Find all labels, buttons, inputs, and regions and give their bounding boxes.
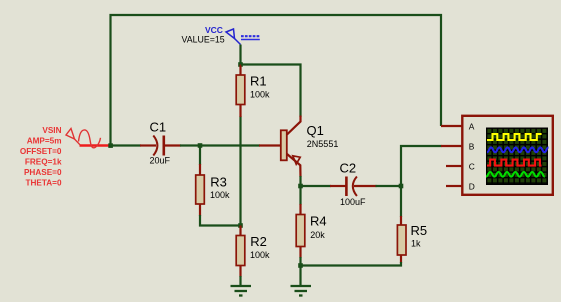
wire: R1 bottom through to divider node (crosses base wire)	[239, 116, 241, 226]
svg-text:100k: 100k	[250, 90, 270, 100]
wire: R5 bottom to emitter ground rail	[301, 262, 402, 266]
svg-text:C: C	[469, 161, 475, 171]
resistor R5	[397, 216, 406, 263]
scope trace channel D (green sine)	[486, 172, 545, 177]
svg-text:20uF: 20uF	[150, 156, 171, 166]
svg-text:20k: 20k	[310, 230, 325, 240]
svg-text:VCC: VCC	[205, 25, 223, 35]
scope trace channel C (red square wave)	[487, 160, 542, 166]
scope screen with grid	[486, 128, 548, 186]
svg-text:PHASE=0: PHASE=0	[24, 168, 62, 177]
base pin	[259, 144, 280, 146]
svg-text:100k: 100k	[250, 250, 270, 260]
node: emitter junction	[298, 184, 303, 189]
wire: input loop from VSIN node to scope channel A	[111, 15, 442, 146]
svg-text:AMP=5m: AMP=5m	[27, 137, 62, 146]
svg-text:R4: R4	[310, 214, 327, 229]
node: input junction	[108, 143, 113, 148]
resistor R4	[296, 186, 305, 266]
scope pin A	[441, 125, 462, 127]
resistor R2	[236, 226, 245, 278]
svg-text:THETA=0: THETA=0	[25, 179, 61, 188]
emitter lead with arrow	[287, 154, 301, 177]
oscilloscope U1 body	[462, 116, 553, 195]
svg-text:FREQ=1k: FREQ=1k	[25, 158, 62, 167]
ground (under R2)	[231, 286, 252, 296]
svg-text:1k: 1k	[411, 239, 421, 249]
svg-text:R1: R1	[250, 73, 267, 88]
wire: output node down to R5	[400, 186, 402, 217]
base bar	[281, 130, 287, 160]
wire: VCC node to collector	[241, 65, 301, 118]
capacitor C2	[330, 177, 377, 197]
svg-text:A: A	[469, 121, 475, 131]
wire: junction down to R3	[199, 146, 201, 166]
svg-text:OFFSET=0: OFFSET=0	[20, 147, 62, 156]
svg-text:Q1: Q1	[307, 123, 324, 138]
svg-text:2N5551: 2N5551	[307, 139, 339, 149]
svg-text:C1: C1	[150, 120, 167, 135]
svg-text:VSIN: VSIN	[42, 126, 61, 135]
wire: R2 to ground	[239, 276, 241, 285]
svg-text:C2: C2	[340, 161, 357, 176]
capacitor C1	[140, 136, 181, 156]
wire: C2 to output node	[376, 185, 402, 187]
node: R4/R5 ground junction	[298, 263, 303, 268]
scope trace channel B (blue sine)	[487, 147, 548, 152]
generator VSIN	[66, 129, 112, 148]
scope channel labels	[469, 121, 475, 191]
wire: output node up and to scope channel B	[401, 146, 442, 186]
power terminal VCC	[226, 29, 260, 45]
resistor R1	[236, 65, 245, 118]
node: output junction	[399, 184, 404, 189]
wire: junction to ground	[299, 266, 301, 286]
node: base/R3 junction	[198, 143, 203, 148]
scope pin C	[446, 165, 462, 167]
scope pin B	[441, 145, 462, 147]
svg-text:100uF: 100uF	[340, 197, 366, 207]
svg-text:100k: 100k	[210, 190, 230, 200]
svg-text:D: D	[469, 181, 475, 191]
scope trace channel A (yellow square wave)	[487, 134, 542, 140]
wire: VCC to R1 node	[239, 45, 241, 66]
ground (under R4)	[291, 286, 312, 296]
wire: emitter node to C2	[301, 185, 332, 187]
svg-text:R5: R5	[411, 223, 428, 238]
node: VCC/R1/collector junction	[238, 62, 243, 67]
node: divider junction above R2	[238, 223, 243, 228]
scope pin D	[446, 185, 462, 187]
transistor Q1	[259, 116, 301, 178]
VSIN parameter labels	[20, 126, 62, 188]
svg-text:R3: R3	[210, 174, 227, 189]
wire: emitter to node	[299, 176, 301, 186]
wire: C1 to base node	[180, 144, 260, 146]
wire: R3 bottom to divider node	[200, 215, 241, 226]
resistor R3	[196, 164, 205, 216]
wire: input node to C1	[111, 144, 141, 146]
svg-text:B: B	[469, 141, 475, 151]
svg-text:R2: R2	[250, 234, 267, 249]
collector lead	[287, 116, 301, 135]
svg-text:VALUE=15: VALUE=15	[182, 35, 225, 45]
